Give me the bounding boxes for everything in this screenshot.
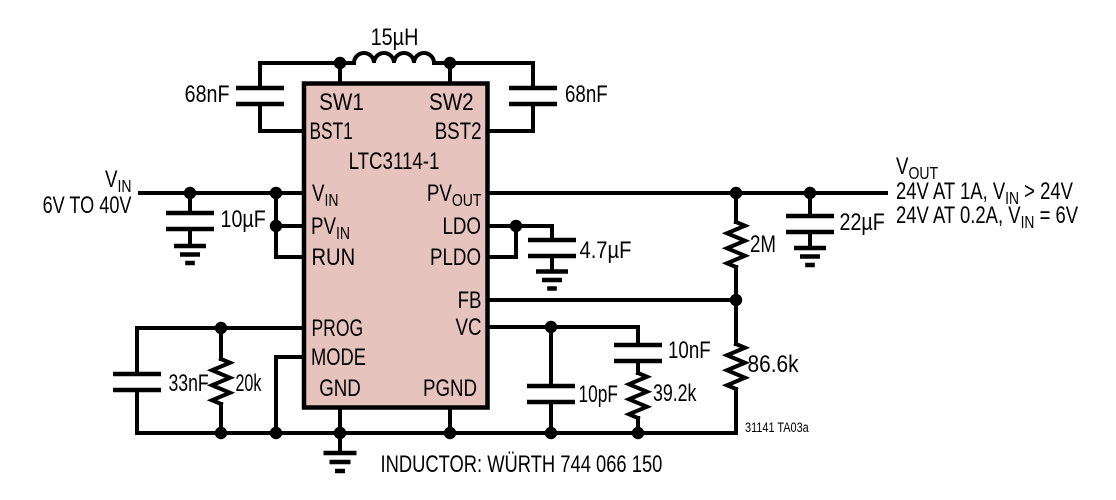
wire PGND pin stub xyxy=(448,408,452,433)
label VIN input xyxy=(105,166,132,197)
wire PVIN horizontal xyxy=(276,224,304,228)
resistor R2 86.6k xyxy=(727,300,799,433)
svg-text:10pF: 10pF xyxy=(579,381,618,407)
wire top-left horizontal rail xyxy=(260,61,340,65)
part number LTC3114-1 xyxy=(349,148,440,175)
wire BST2 xyxy=(488,129,533,133)
svg-text:LTC3114-1: LTC3114-1 xyxy=(349,148,440,175)
node R1 top junction xyxy=(730,187,742,199)
pin label PVIN xyxy=(311,213,350,244)
pin label BST1 xyxy=(310,118,353,144)
node PVIN junction xyxy=(270,220,282,232)
label circuit id 31141 TA03a xyxy=(745,420,809,436)
pin label PROG xyxy=(312,315,364,341)
node LDO junction xyxy=(510,220,522,232)
svg-text:15µH: 15µH xyxy=(371,23,419,50)
svg-text:20k: 20k xyxy=(236,371,263,397)
capacitor C6 22µF output xyxy=(786,193,885,247)
wire FB horizontal xyxy=(488,298,736,302)
wire ground bus xyxy=(137,431,736,435)
wire PLDO xyxy=(488,226,516,257)
ground below C3 xyxy=(174,246,206,263)
wire RUN xyxy=(276,255,304,259)
node PROG junction xyxy=(215,322,227,334)
wire VC horizontal xyxy=(488,327,638,345)
svg-text:RUN: RUN xyxy=(312,243,356,270)
pin label GND xyxy=(319,375,361,402)
svg-text:10µF: 10µF xyxy=(221,205,266,232)
node bus GND junction xyxy=(334,427,346,439)
wire PVOUT output rail xyxy=(488,191,886,195)
svg-text:22µF: 22µF xyxy=(840,208,885,235)
wire PVIN vertical xyxy=(274,193,278,257)
wire MODE xyxy=(276,357,304,433)
node VIN-C3 junction xyxy=(184,187,196,199)
svg-text:PROG: PROG xyxy=(312,315,364,341)
label 24V AT 1A line xyxy=(896,178,1074,209)
svg-text:31141 TA03a: 31141 TA03a xyxy=(745,420,809,436)
capacitor C4 4.7µF xyxy=(528,236,631,271)
node bus MODE junction xyxy=(270,427,282,439)
ground below C6 xyxy=(794,248,826,265)
inductor L 15µH xyxy=(340,23,450,63)
pin label FB xyxy=(458,287,482,314)
label inductor note xyxy=(381,451,663,478)
wire VIN input rail xyxy=(140,191,304,195)
resistor R3 39.2k xyxy=(629,373,697,433)
capacitor C8 10nF xyxy=(614,337,711,373)
resistor R1 2M xyxy=(727,193,776,300)
svg-text:10nF: 10nF xyxy=(668,337,711,364)
capacitor C3 10µF input xyxy=(166,193,266,245)
op-amp U1 LTC3114-1 body xyxy=(304,84,488,408)
svg-text:VC: VC xyxy=(456,314,482,341)
capacitor C7 10pF xyxy=(527,327,618,433)
wire BST1 xyxy=(260,129,304,133)
svg-text:MODE: MODE xyxy=(311,344,366,371)
label 6V TO 40V xyxy=(43,192,133,219)
node bus 39.2k junction xyxy=(632,427,644,439)
svg-text:2M: 2M xyxy=(750,231,776,258)
wire LDO xyxy=(488,226,552,240)
svg-text:4.7µF: 4.7µF xyxy=(580,236,632,263)
wire top-right horizontal rail xyxy=(450,61,533,65)
capacitor C1 68nF (left boost) xyxy=(185,63,284,131)
svg-text:GND: GND xyxy=(319,375,361,402)
svg-text:68nF: 68nF xyxy=(565,81,608,108)
wire SW2 stub xyxy=(448,63,452,84)
svg-text:39.2k: 39.2k xyxy=(653,381,697,407)
svg-text:33nF: 33nF xyxy=(169,370,209,396)
wire PROG horizontal xyxy=(137,326,304,330)
label VOUT xyxy=(896,153,938,184)
svg-text:PLDO: PLDO xyxy=(430,244,481,271)
svg-text:LDO: LDO xyxy=(443,213,481,240)
node SW2 top junction xyxy=(444,57,456,69)
ground main symbol xyxy=(324,433,357,471)
pin label BST2 xyxy=(435,118,482,145)
svg-text:68nF: 68nF xyxy=(185,80,230,107)
resistor R4 20k xyxy=(212,328,262,433)
label 24V AT 0.2A line xyxy=(896,202,1079,233)
svg-text:PGND: PGND xyxy=(423,375,477,402)
svg-text:SW1: SW1 xyxy=(319,89,364,116)
node bus 20k junction xyxy=(215,427,227,439)
pin label SW1 xyxy=(319,89,364,116)
pin label VIN xyxy=(312,180,339,211)
pin label LDO xyxy=(443,213,481,240)
pin label PLDO xyxy=(430,244,481,271)
pin label RUN xyxy=(312,243,356,270)
svg-text:BST1: BST1 xyxy=(310,118,353,144)
node VC junction xyxy=(545,321,557,333)
pin label PGND xyxy=(423,375,477,402)
ground below C4 xyxy=(536,272,568,289)
node C6 top junction xyxy=(804,187,816,199)
capacitor C2 68nF (right boost) xyxy=(509,63,608,131)
node SW1 top junction xyxy=(334,57,346,69)
capacitor C5 33nF xyxy=(113,328,209,433)
pin label MODE xyxy=(311,344,366,371)
wire SW1 stub xyxy=(338,63,342,84)
svg-text:INDUCTOR: WÜRTH 744 066 150: INDUCTOR: WÜRTH 744 066 150 xyxy=(381,451,663,478)
node bus PGND junction xyxy=(444,427,456,439)
node bus 10pF junction xyxy=(545,427,557,439)
node FB junction xyxy=(730,294,742,306)
svg-text:24V AT 0.2A, VIN = 6V: 24V AT 0.2A, VIN = 6V xyxy=(896,202,1079,233)
pin label PVOUT xyxy=(427,180,482,211)
svg-text:86.6k: 86.6k xyxy=(748,351,800,378)
svg-text:6V TO 40V: 6V TO 40V xyxy=(43,192,133,219)
svg-text:BST2: BST2 xyxy=(435,118,482,145)
pin label VC xyxy=(456,314,482,341)
svg-text:SW2: SW2 xyxy=(429,89,474,116)
node VIN-PVIN junction xyxy=(270,187,282,199)
pin label SW2 xyxy=(429,89,474,116)
wire GND pin stub xyxy=(338,408,342,433)
svg-text:FB: FB xyxy=(458,287,482,314)
